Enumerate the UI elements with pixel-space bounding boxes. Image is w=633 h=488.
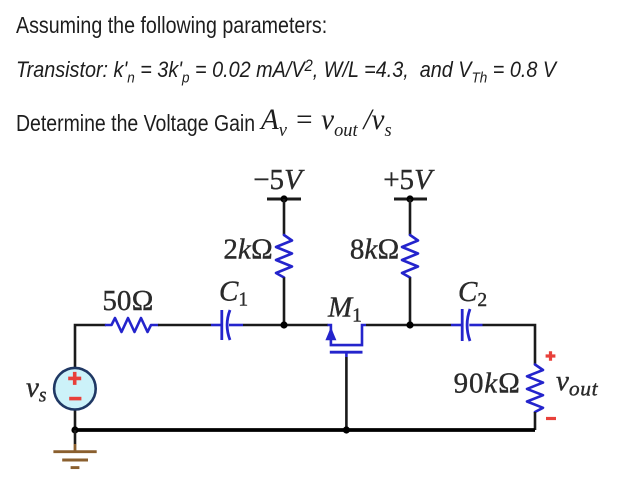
wire: 2k bottom to main line: [283, 278, 286, 326]
node: +5V rail junction dot: [406, 195, 413, 202]
svg-text:vout: vout: [556, 365, 599, 400]
svg-text:vs: vs: [26, 372, 46, 407]
svg-text:M1: M1: [327, 292, 362, 327]
svg-text:C2: C2: [458, 276, 487, 311]
label vout minus: [546, 417, 556, 420]
wire: 50ohm to C1: [158, 324, 211, 327]
wire: +5V rail down to 8k resistor: [409, 199, 412, 235]
label C2: [458, 276, 487, 311]
label +5V: [383, 164, 435, 196]
label 8k: [350, 233, 400, 265]
capacitor C1: [211, 310, 243, 340]
node: 2k / C1 / M1 junction dot: [280, 321, 287, 328]
label C1: [219, 275, 248, 310]
capacitor C2: [451, 309, 483, 341]
resistor 8k: [402, 235, 418, 278]
supply -5V rail bar: [267, 198, 301, 201]
label M1: [327, 292, 362, 327]
wire: 8k bottom to main line: [409, 278, 412, 326]
wire: M1 drain to C2 (through 8k node): [366, 324, 451, 327]
transistor M1: [325, 325, 366, 357]
label 90k: [454, 368, 521, 400]
svg-text:C1: C1: [219, 275, 248, 310]
wire: vs top lead up and right to 50-ohm resistor: [75, 325, 106, 368]
wire: C1 to M1 source (through drain node of 2k): [243, 324, 328, 327]
ground: [53, 430, 96, 468]
svg-text:8kΩ: 8kΩ: [350, 233, 400, 265]
svg-text:50Ω: 50Ω: [102, 285, 153, 317]
wire: bottom ground rail: [75, 428, 535, 432]
wire: C2 right and corner down to 90k: [483, 325, 536, 365]
label -5V: [253, 164, 305, 196]
label vs: [26, 372, 46, 407]
node: -5V rail junction dot: [280, 195, 287, 202]
wire: -5V rail down to 2k resistor: [283, 199, 286, 235]
node: vs / rail junction dot: [71, 426, 78, 433]
resistor Rs 50ohm: [106, 318, 158, 332]
resistor 2k: [276, 235, 292, 278]
supply +5V rail bar: [394, 198, 427, 201]
label 2k: [223, 233, 273, 265]
node: 8k / M1 drain / C2 junction dot: [406, 321, 413, 328]
svg-text:+5V: +5V: [383, 164, 435, 196]
label vout plus: [546, 351, 556, 360]
node: gate / rail junction dot: [343, 426, 350, 433]
label 50ohm: [102, 285, 153, 317]
svg-text:90kΩ: 90kΩ: [454, 368, 521, 400]
wire: M1 gate down to bottom rail: [345, 357, 348, 430]
voltage source vs: [54, 368, 96, 430]
svg-text:2kΩ: 2kΩ: [223, 233, 273, 265]
svg-text:−5V: −5V: [253, 164, 305, 196]
wire: 90k bottom to rail: [534, 412, 537, 430]
resistor 90k: [527, 365, 543, 413]
label vout: [556, 365, 599, 400]
